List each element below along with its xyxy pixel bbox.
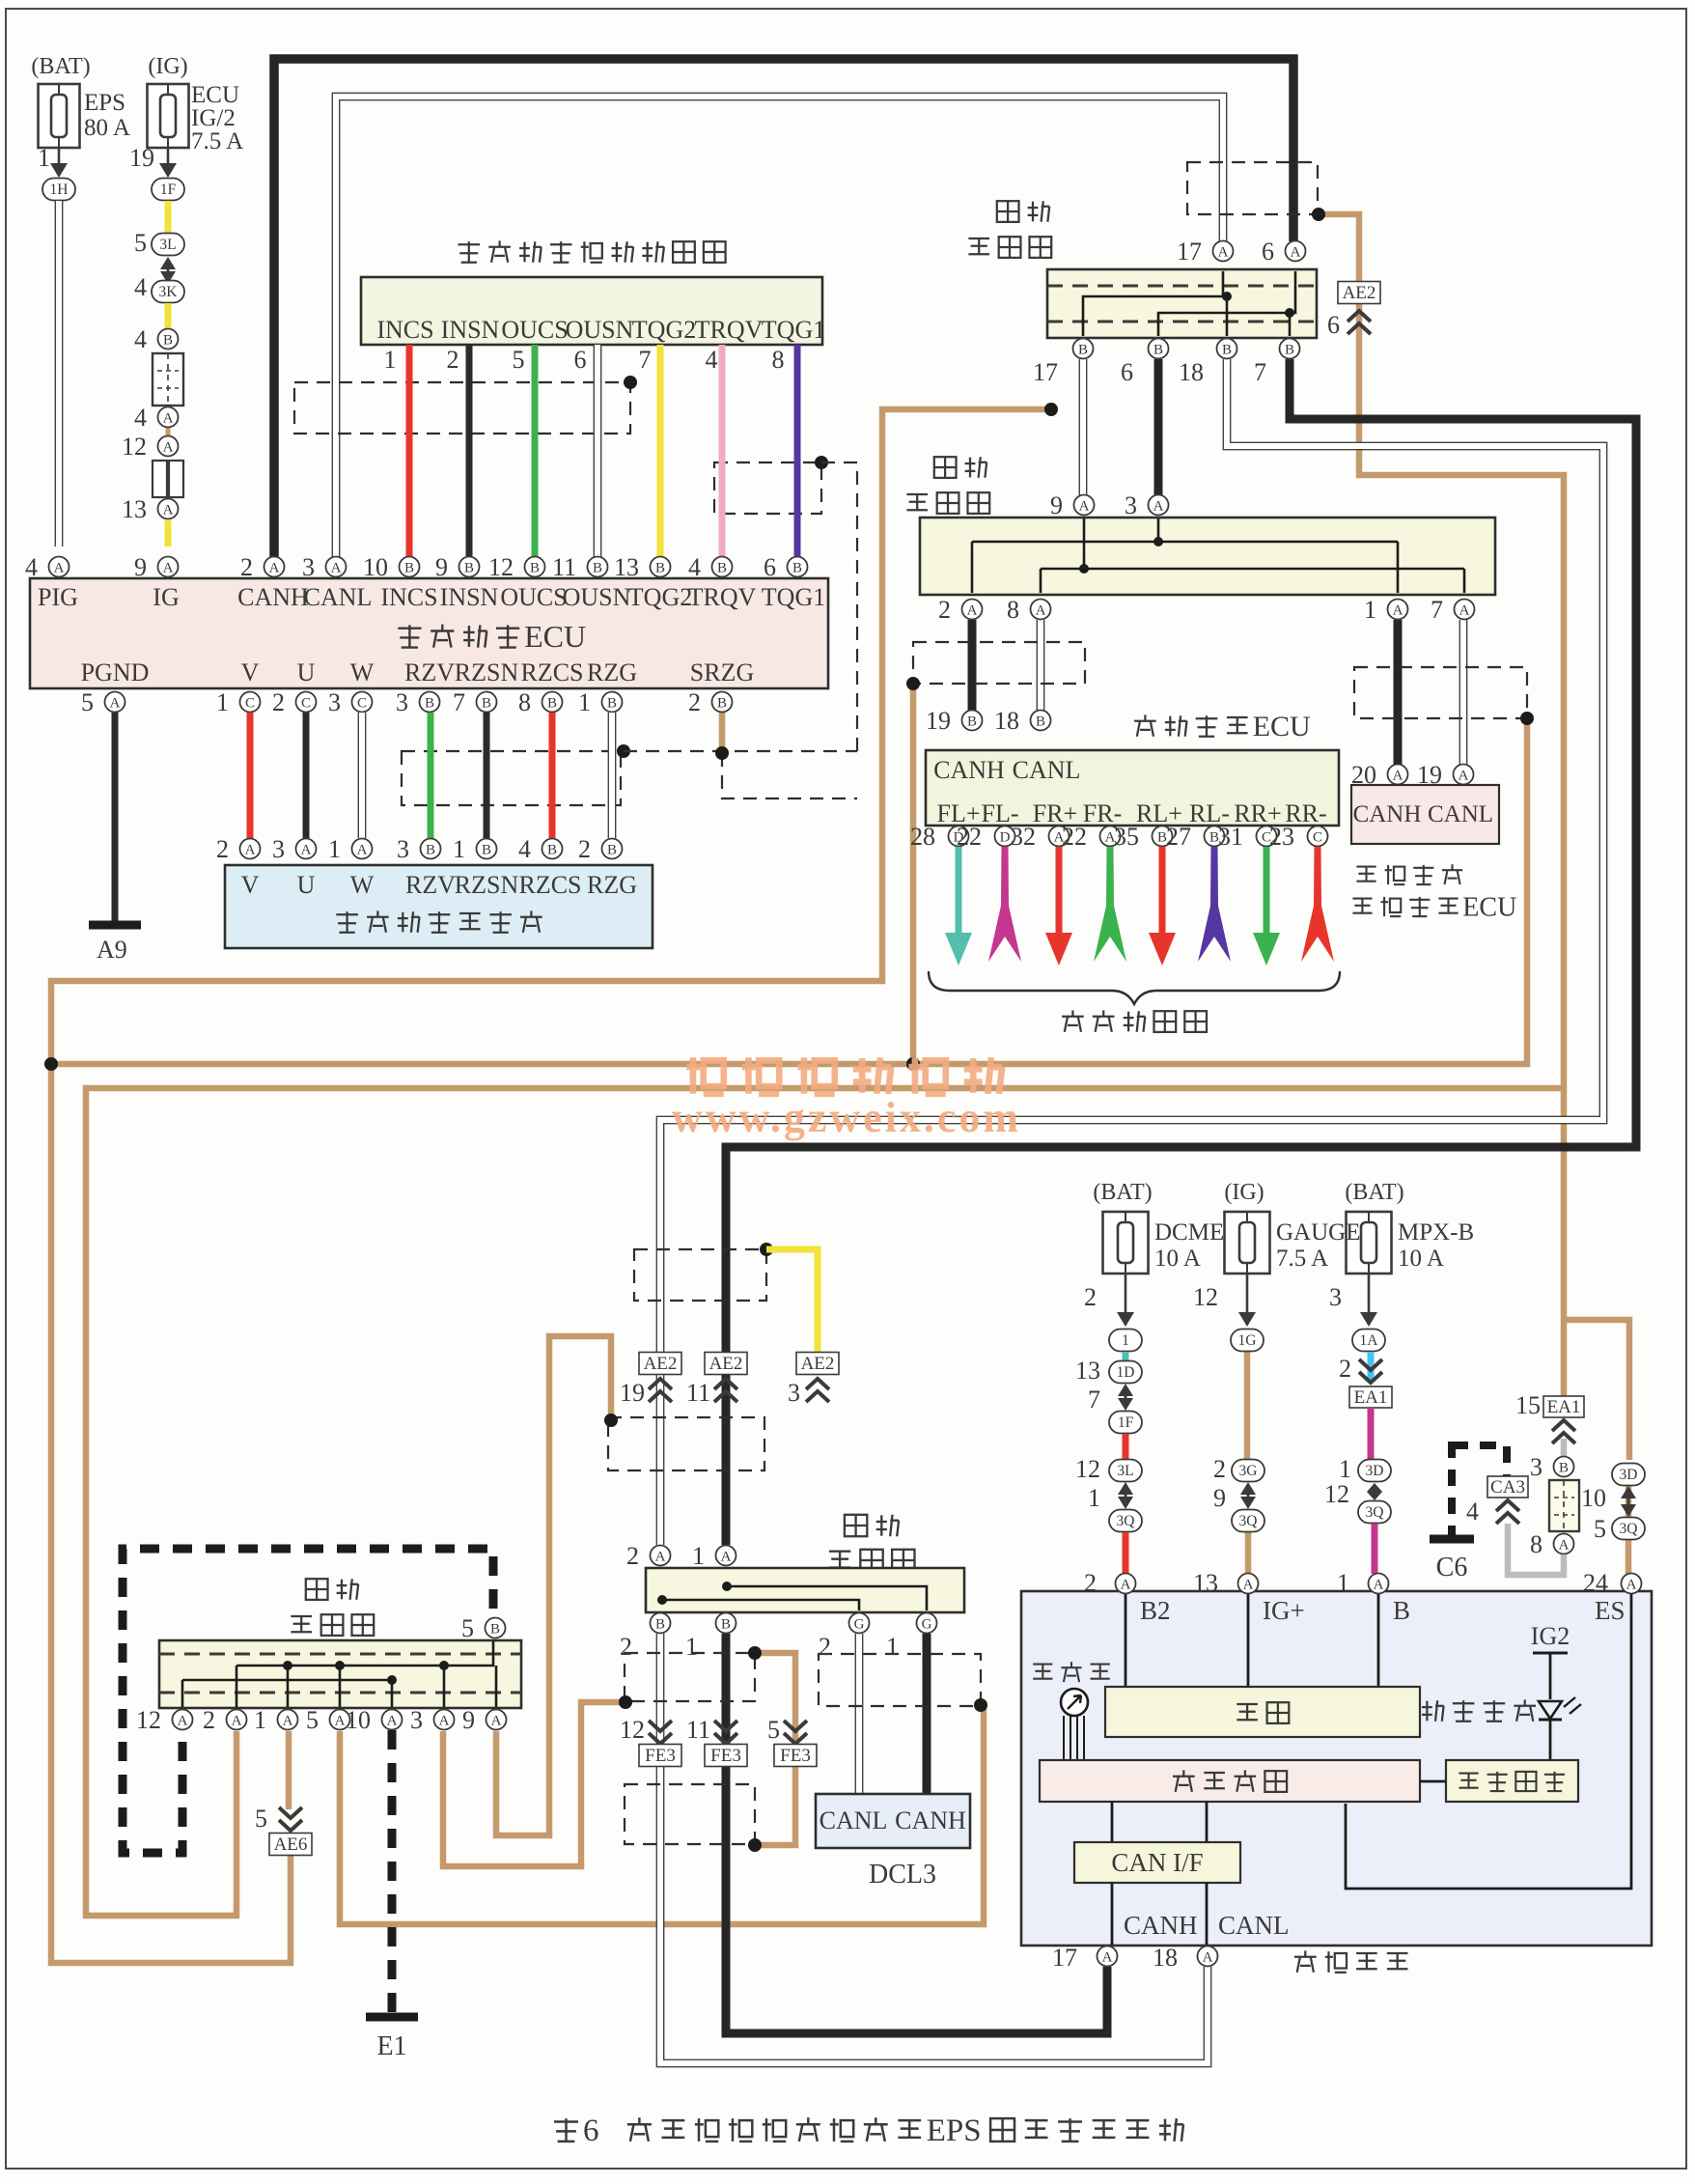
svg-text:EPS: EPS — [84, 90, 125, 116]
svg-text:12: 12 — [136, 1706, 161, 1734]
svg-text:12: 12 — [1075, 1455, 1100, 1483]
svg-text:CANL: CANL — [304, 583, 373, 611]
svg-text:13: 13 — [614, 553, 639, 581]
svg-text:CANL: CANL — [1013, 756, 1081, 784]
svg-text:4: 4 — [134, 273, 147, 301]
svg-text:RZCS: RZCS — [518, 871, 581, 899]
svg-text:22: 22 — [957, 823, 982, 851]
svg-text:RZV: RZV — [405, 871, 456, 899]
svg-text:2: 2 — [216, 835, 229, 863]
svg-text:A: A — [1218, 245, 1229, 261]
svg-text:www.gzweix.com: www.gzweix.com — [672, 1094, 1021, 1141]
svg-text:3: 3 — [272, 835, 285, 863]
svg-text:TQG2: TQG2 — [628, 583, 692, 611]
svg-text:A: A — [491, 1714, 502, 1729]
svg-text:OUSN: OUSN — [566, 316, 634, 344]
svg-text:5: 5 — [255, 1805, 267, 1833]
svg-text:3L: 3L — [159, 237, 176, 253]
svg-text:7: 7 — [1431, 596, 1443, 624]
svg-text:4: 4 — [706, 346, 718, 374]
svg-text:CA3: CA3 — [1490, 1477, 1525, 1498]
svg-text:CANH: CANH — [895, 1806, 966, 1834]
svg-text:5: 5 — [767, 1716, 780, 1744]
svg-text:1H: 1H — [50, 182, 69, 198]
svg-text:B: B — [482, 843, 491, 858]
svg-text:3Q: 3Q — [1620, 1521, 1638, 1537]
svg-text:8: 8 — [518, 688, 531, 716]
svg-text:RZG: RZG — [587, 658, 637, 686]
svg-text:B2: B2 — [1140, 1596, 1171, 1625]
svg-text:2: 2 — [447, 346, 459, 374]
svg-text:2: 2 — [578, 835, 591, 863]
svg-text:A: A — [335, 1714, 346, 1729]
svg-text:INSN: INSN — [441, 316, 500, 344]
svg-text:EA1: EA1 — [1547, 1397, 1581, 1417]
svg-text:6: 6 — [583, 2114, 599, 2148]
svg-text:B: B — [967, 714, 977, 730]
svg-text:A: A — [163, 440, 174, 456]
svg-text:CANH: CANH — [1124, 1911, 1198, 1940]
svg-text:35: 35 — [1114, 823, 1139, 851]
svg-text:EPS: EPS — [927, 2114, 982, 2148]
svg-text:A: A — [163, 411, 174, 427]
svg-text:23: 23 — [1269, 823, 1294, 851]
svg-text:2: 2 — [272, 688, 285, 716]
svg-text:EA1: EA1 — [1354, 1387, 1388, 1408]
svg-text:TRQV: TRQV — [688, 583, 757, 611]
svg-text:B: B — [607, 696, 617, 712]
svg-text:W: W — [350, 871, 375, 899]
svg-text:31: 31 — [1218, 823, 1243, 851]
svg-text:2: 2 — [620, 1633, 632, 1661]
svg-text:1: 1 — [38, 144, 50, 172]
svg-text:9: 9 — [435, 553, 448, 581]
svg-text:CAN I/F: CAN I/F — [1111, 1848, 1203, 1877]
svg-text:TQG1: TQG1 — [762, 316, 825, 344]
svg-text:C: C — [301, 696, 311, 712]
svg-text:3: 3 — [328, 688, 341, 716]
svg-text:12: 12 — [1324, 1480, 1349, 1508]
svg-text:TQG1: TQG1 — [762, 583, 825, 611]
svg-text:B: B — [490, 1622, 500, 1638]
svg-text:A: A — [1459, 603, 1470, 619]
svg-text:CANH: CANH — [237, 583, 309, 611]
svg-text:A: A — [110, 696, 121, 712]
svg-text:10 A: 10 A — [1398, 1246, 1444, 1272]
svg-text:B: B — [1285, 343, 1294, 358]
svg-text:A9: A9 — [97, 936, 127, 964]
svg-text:13: 13 — [122, 495, 147, 523]
svg-text:18: 18 — [994, 707, 1019, 735]
svg-text:6: 6 — [764, 553, 776, 581]
svg-text:A: A — [283, 1714, 293, 1729]
svg-text:13: 13 — [1193, 1569, 1218, 1597]
svg-text:DCME: DCME — [1154, 1219, 1224, 1246]
svg-text:28: 28 — [910, 823, 935, 851]
svg-text:A: A — [1374, 1578, 1384, 1593]
svg-text:4: 4 — [134, 404, 147, 432]
svg-text:A: A — [301, 843, 312, 858]
svg-text:19: 19 — [129, 144, 154, 172]
svg-text:1G: 1G — [1238, 1332, 1257, 1349]
svg-text:A: A — [1036, 603, 1046, 619]
svg-text:7: 7 — [639, 346, 652, 374]
svg-text:GAUGE: GAUGE — [1276, 1219, 1361, 1246]
svg-text:3D: 3D — [1366, 1463, 1384, 1479]
svg-text:3: 3 — [410, 1706, 423, 1734]
svg-text:ECU: ECU — [191, 82, 239, 108]
svg-text:B: B — [717, 696, 727, 712]
svg-text:6: 6 — [574, 346, 587, 374]
svg-text:2: 2 — [1213, 1455, 1226, 1483]
svg-text:A: A — [1459, 769, 1469, 784]
svg-text:A: A — [967, 603, 978, 619]
svg-text:D: D — [1000, 830, 1011, 846]
svg-text:6: 6 — [1121, 358, 1133, 386]
svg-text:3: 3 — [1125, 491, 1137, 519]
svg-text:11: 11 — [686, 1379, 710, 1407]
svg-text:A: A — [54, 561, 65, 576]
svg-text:E1: E1 — [376, 2031, 406, 2061]
svg-text:B: B — [1559, 1461, 1569, 1476]
svg-text:9: 9 — [1213, 1484, 1226, 1512]
svg-text:7.5 A: 7.5 A — [191, 128, 243, 154]
svg-text:C: C — [357, 696, 367, 712]
svg-text:IG2: IG2 — [1531, 1622, 1570, 1650]
svg-text:A: A — [245, 843, 256, 858]
svg-text:ECU: ECU — [1253, 711, 1311, 742]
svg-text:6: 6 — [1327, 311, 1340, 339]
svg-text:A: A — [1626, 1578, 1637, 1593]
svg-text:11: 11 — [552, 553, 576, 581]
svg-text:1: 1 — [254, 1706, 266, 1734]
svg-text:3: 3 — [396, 688, 408, 716]
svg-text:CANL: CANL — [1218, 1911, 1290, 1940]
svg-text:AE2: AE2 — [644, 1354, 678, 1374]
svg-text:2: 2 — [626, 1542, 639, 1570]
svg-text:3L: 3L — [1117, 1463, 1133, 1479]
svg-text:8: 8 — [1007, 596, 1019, 624]
svg-text:B: B — [1036, 714, 1045, 730]
svg-text:1A: 1A — [1360, 1332, 1379, 1349]
svg-text:B: B — [655, 1617, 665, 1633]
svg-text:B: B — [717, 561, 727, 576]
svg-text:80 A: 80 A — [84, 115, 130, 141]
svg-text:INSN: INSN — [440, 583, 499, 611]
svg-text:19: 19 — [620, 1379, 645, 1407]
svg-text:1: 1 — [692, 1542, 705, 1570]
svg-text:A: A — [387, 1714, 398, 1729]
svg-text:(IG): (IG) — [1224, 1180, 1264, 1205]
svg-text:2: 2 — [1084, 1283, 1097, 1311]
svg-text:5: 5 — [513, 346, 525, 374]
svg-text:U: U — [297, 871, 316, 899]
svg-text:3: 3 — [788, 1379, 800, 1407]
svg-text:3Q: 3Q — [1366, 1504, 1384, 1521]
svg-text:CANH: CANH — [1353, 801, 1422, 827]
svg-text:1: 1 — [685, 1633, 698, 1661]
svg-text:U: U — [297, 658, 316, 686]
svg-text:17: 17 — [1052, 1944, 1077, 1972]
svg-text:7: 7 — [453, 688, 465, 716]
svg-text:A: A — [1102, 1950, 1113, 1966]
svg-text:1F: 1F — [1118, 1414, 1134, 1431]
svg-text:17: 17 — [1177, 238, 1202, 266]
svg-text:PGND: PGND — [81, 658, 150, 686]
svg-text:B: B — [792, 561, 802, 576]
svg-text:B: B — [482, 696, 491, 712]
svg-text:A: A — [721, 1550, 732, 1565]
svg-text:AE2: AE2 — [801, 1354, 835, 1374]
svg-text:A: A — [232, 1714, 242, 1729]
svg-text:B: B — [1222, 343, 1232, 358]
svg-text:1: 1 — [1088, 1484, 1100, 1512]
svg-text:9: 9 — [1050, 491, 1063, 519]
svg-text:(IG): (IG) — [148, 54, 187, 79]
svg-text:G: G — [922, 1617, 932, 1633]
svg-text:1: 1 — [578, 688, 591, 716]
svg-text:W: W — [350, 658, 375, 686]
svg-text:B: B — [1078, 343, 1088, 358]
svg-text:A: A — [655, 1550, 666, 1565]
svg-text:V: V — [241, 658, 260, 686]
svg-text:SRZG: SRZG — [690, 658, 754, 686]
svg-text:3: 3 — [1530, 1453, 1542, 1481]
svg-text:B: B — [464, 561, 474, 576]
svg-text:9: 9 — [134, 553, 147, 581]
svg-text:5: 5 — [134, 229, 147, 257]
svg-text:TQG2: TQG2 — [632, 316, 696, 344]
svg-text:3G: 3G — [1239, 1463, 1258, 1479]
svg-text:4: 4 — [1466, 1498, 1479, 1526]
svg-text:MPX-B: MPX-B — [1398, 1219, 1474, 1246]
svg-text:19: 19 — [926, 707, 951, 735]
svg-text:IG/2: IG/2 — [191, 105, 236, 131]
svg-text:FE3: FE3 — [645, 1746, 676, 1766]
svg-text:12: 12 — [1193, 1283, 1218, 1311]
svg-text:3D: 3D — [1620, 1467, 1638, 1483]
svg-text:INCS: INCS — [376, 316, 433, 344]
svg-text:A: A — [1121, 1578, 1131, 1593]
svg-text:17: 17 — [1033, 358, 1058, 386]
svg-text:G: G — [854, 1617, 865, 1633]
svg-text:DCL3: DCL3 — [869, 1860, 936, 1890]
svg-text:B: B — [607, 843, 617, 858]
svg-text:RZSN: RZSN — [455, 871, 519, 899]
svg-text:1: 1 — [216, 688, 229, 716]
svg-text:B: B — [547, 696, 557, 712]
svg-text:13: 13 — [1075, 1357, 1100, 1385]
svg-text:RZV: RZV — [404, 658, 455, 686]
svg-text:B: B — [1153, 343, 1163, 358]
svg-text:2: 2 — [688, 688, 701, 716]
svg-text:3: 3 — [1329, 1283, 1342, 1311]
svg-text:18: 18 — [1153, 1944, 1178, 1972]
svg-text:TRQV: TRQV — [695, 316, 764, 344]
svg-text:A: A — [357, 843, 368, 858]
svg-text:1D: 1D — [1117, 1364, 1135, 1381]
svg-text:32: 32 — [1011, 823, 1036, 851]
svg-text:RZSN: RZSN — [455, 658, 519, 686]
svg-text:ES: ES — [1595, 1596, 1626, 1625]
svg-text:1F: 1F — [160, 182, 177, 198]
svg-text:22: 22 — [1062, 823, 1087, 851]
svg-text:11: 11 — [686, 1716, 710, 1744]
svg-text:4: 4 — [688, 553, 701, 581]
svg-text:B: B — [426, 843, 435, 858]
svg-text:12: 12 — [122, 433, 147, 461]
svg-text:FE3: FE3 — [780, 1746, 811, 1766]
svg-text:OUSN: OUSN — [563, 583, 631, 611]
svg-text:A: A — [163, 503, 174, 518]
svg-text:C: C — [1313, 830, 1322, 846]
svg-text:AE6: AE6 — [274, 1834, 308, 1855]
svg-text:27: 27 — [1166, 823, 1191, 851]
svg-text:10: 10 — [346, 1706, 371, 1734]
svg-text:7: 7 — [1088, 1386, 1100, 1414]
svg-text:(BAT): (BAT) — [1093, 1180, 1152, 1205]
svg-text:18: 18 — [1179, 358, 1204, 386]
svg-text:B: B — [404, 561, 414, 576]
svg-text:2: 2 — [240, 553, 253, 581]
svg-text:2: 2 — [203, 1706, 215, 1734]
svg-text:3: 3 — [397, 835, 409, 863]
svg-text:1: 1 — [453, 835, 465, 863]
svg-text:7.5 A: 7.5 A — [1276, 1246, 1328, 1272]
svg-text:12: 12 — [488, 553, 514, 581]
svg-text:A: A — [1203, 1950, 1213, 1966]
svg-text:5: 5 — [461, 1614, 474, 1642]
svg-text:A: A — [178, 1714, 188, 1729]
svg-text:1: 1 — [328, 835, 341, 863]
svg-text:A: A — [1393, 769, 1403, 784]
svg-text:3Q: 3Q — [1117, 1513, 1135, 1529]
svg-text:A: A — [439, 1714, 450, 1729]
svg-text:PIG: PIG — [38, 583, 78, 611]
svg-text:CANL: CANL — [1428, 801, 1493, 827]
svg-text:15: 15 — [1515, 1391, 1541, 1419]
svg-text:IG+: IG+ — [1263, 1596, 1305, 1625]
svg-text:RZCS: RZCS — [520, 658, 583, 686]
svg-text:10: 10 — [1581, 1484, 1606, 1512]
svg-text:7: 7 — [1254, 358, 1266, 386]
svg-text:OUCS: OUCS — [500, 583, 567, 611]
svg-text:5: 5 — [81, 688, 94, 716]
svg-text:3K: 3K — [159, 284, 179, 300]
svg-text:A: A — [1291, 245, 1301, 261]
svg-text:B: B — [1393, 1596, 1410, 1625]
svg-text:(BAT): (BAT) — [31, 54, 90, 79]
svg-text:(BAT): (BAT) — [1345, 1180, 1403, 1205]
svg-text:3: 3 — [302, 553, 315, 581]
svg-text:FE3: FE3 — [710, 1746, 741, 1766]
svg-text:1: 1 — [886, 1633, 899, 1661]
svg-text:2: 2 — [1339, 1355, 1351, 1383]
svg-text:4: 4 — [134, 325, 147, 353]
svg-text:C6: C6 — [1436, 1553, 1468, 1582]
svg-text:AE2: AE2 — [1343, 283, 1376, 303]
svg-text:A: A — [331, 561, 342, 576]
svg-text:B: B — [593, 561, 602, 576]
svg-text:B: B — [655, 561, 665, 576]
svg-text:2: 2 — [938, 596, 951, 624]
svg-text:IG: IG — [153, 583, 179, 611]
svg-text:6: 6 — [1262, 238, 1274, 266]
svg-text:INCS: INCS — [380, 583, 437, 611]
svg-text:4: 4 — [25, 553, 38, 581]
svg-text:OUCS: OUCS — [501, 316, 568, 344]
svg-text:8: 8 — [772, 346, 785, 374]
svg-text:A: A — [1079, 499, 1090, 515]
svg-text:A: A — [1393, 603, 1403, 619]
svg-text:AE2: AE2 — [709, 1354, 743, 1374]
svg-text:ECU: ECU — [1462, 893, 1516, 923]
svg-text:1: 1 — [1364, 596, 1376, 624]
svg-text:B: B — [530, 561, 540, 576]
svg-text:5: 5 — [1594, 1515, 1606, 1543]
svg-text:V: V — [241, 871, 260, 899]
svg-text:10 A: 10 A — [1154, 1246, 1201, 1272]
svg-text:B: B — [425, 696, 434, 712]
svg-text:A: A — [269, 561, 280, 576]
svg-text:A: A — [163, 561, 174, 576]
svg-text:CANH: CANH — [933, 756, 1005, 784]
svg-text:B: B — [163, 333, 173, 349]
svg-text:2: 2 — [819, 1633, 831, 1661]
svg-text:3Q: 3Q — [1239, 1513, 1258, 1529]
svg-text:B: B — [547, 843, 557, 858]
svg-text:8: 8 — [1530, 1530, 1542, 1558]
svg-text:4: 4 — [518, 835, 531, 863]
svg-text:A: A — [1153, 499, 1164, 515]
svg-text:1: 1 — [384, 346, 397, 374]
svg-text:10: 10 — [363, 553, 388, 581]
svg-text:ECU: ECU — [524, 619, 586, 654]
svg-text:1: 1 — [1122, 1332, 1129, 1349]
svg-text:B: B — [721, 1617, 731, 1633]
svg-text:12: 12 — [620, 1716, 645, 1744]
svg-text:A: A — [1559, 1538, 1570, 1554]
svg-text:5: 5 — [306, 1706, 319, 1734]
svg-text:A: A — [1243, 1578, 1254, 1593]
svg-text:9: 9 — [462, 1706, 475, 1734]
svg-text:RZG: RZG — [587, 871, 637, 899]
svg-text:CANL: CANL — [820, 1806, 888, 1834]
svg-text:1: 1 — [1339, 1455, 1351, 1483]
svg-text:C: C — [245, 696, 255, 712]
